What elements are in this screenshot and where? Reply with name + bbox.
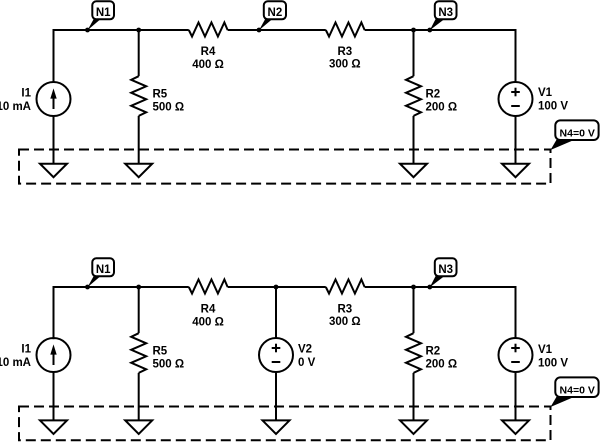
svg-text:100 V: 100 V	[538, 101, 568, 113]
svg-text:300 Ω: 300 Ω	[329, 59, 361, 71]
wire: R5 bottom lead	[138, 116, 140, 164]
wire: I1 bottom lead (bottom)	[53, 372, 55, 420]
wire: R2 top lead (bottom)	[413, 287, 415, 333]
svg-text:R2: R2	[426, 346, 441, 358]
svg-text:500 Ω: 500 Ω	[153, 102, 185, 114]
svg-text:N3: N3	[438, 264, 453, 276]
ground (R5 branch, top circuit)	[125, 164, 152, 178]
wire: R5 bottom lead (bottom)	[138, 373, 140, 421]
wire: R2 bottom lead (bottom)	[413, 373, 415, 421]
junction dot V2 branch (bottom)	[274, 285, 279, 290]
node N4=0V callout (bottom circuit)	[551, 397, 575, 407]
svg-text:0 V: 0 V	[298, 357, 316, 369]
ground (V1 branch, top circuit)	[502, 164, 529, 178]
svg-text:I1: I1	[21, 344, 31, 356]
svg-text:V1: V1	[538, 87, 553, 99]
svg-text:R4: R4	[201, 46, 216, 58]
junction dot N1/R5 branch	[136, 28, 141, 33]
wire: R5 top lead	[138, 30, 140, 76]
svg-text:N1: N1	[96, 264, 111, 276]
wire: bottom bus segment (I1 corner to R4 left lead)	[54, 287, 189, 339]
junction dot N1/R5 branch (bottom)	[136, 285, 141, 290]
ground (I1 branch, bottom circuit)	[40, 420, 67, 434]
node N2 callout (top circuit)	[257, 28, 262, 33]
svg-text:500 Ω: 500 Ω	[153, 359, 185, 371]
resistor R2	[406, 76, 421, 116]
svg-text:V1: V1	[538, 344, 553, 356]
svg-text:R5: R5	[153, 89, 168, 101]
svg-text:N1: N1	[96, 7, 111, 19]
wire: bus segment R3 to V1 corner	[365, 30, 516, 82]
svg-text:I1: I1	[21, 88, 31, 100]
wire: I1 bottom lead	[53, 116, 55, 164]
svg-text:10 mA: 10 mA	[0, 101, 31, 113]
current source I1 (top circuit)	[37, 82, 71, 116]
wire: bus segment R4 to R3 (node N2)	[228, 29, 326, 31]
resistor R4 (bottom)	[189, 280, 228, 294]
wire: V1 bottom lead	[515, 116, 517, 164]
resistor R3 (bottom)	[326, 280, 365, 294]
svg-text:N4=0 V: N4=0 V	[560, 384, 595, 396]
junction dot R2 branch	[411, 28, 416, 33]
svg-text:400 Ω: 400 Ω	[192, 317, 224, 329]
wire: bus segment R4 to R3 with V2 node (bottom)	[228, 286, 326, 288]
wire: R2 top lead	[413, 30, 415, 76]
svg-text:R3: R3	[337, 46, 352, 58]
wire: bus segment R3 to V1 corner (bottom)	[365, 287, 516, 339]
svg-text:R4: R4	[201, 304, 216, 316]
current source I1 (bottom circuit)	[37, 338, 71, 372]
resistor R2 (bottom)	[406, 333, 421, 373]
wire: V2 top lead	[275, 287, 277, 338]
node N4=0V callout (top circuit)	[551, 140, 575, 150]
svg-text:R5: R5	[153, 346, 168, 358]
voltage source V2 (bottom circuit)	[259, 338, 293, 372]
svg-text:R3: R3	[337, 304, 352, 316]
resistor R5 (bottom)	[131, 333, 146, 373]
resistor R5	[131, 76, 146, 116]
node N3 callout (top circuit)	[427, 28, 432, 33]
ground-region dashed box N4 (top circuit)	[19, 150, 551, 184]
ground (V1 branch, bottom circuit)	[502, 420, 529, 434]
junction dot R2 branch (bottom)	[411, 285, 416, 290]
resistor R4	[189, 23, 228, 37]
svg-text:N4=0 V: N4=0 V	[560, 127, 595, 139]
resistor R3	[326, 23, 365, 37]
wire: R2 bottom lead	[413, 116, 415, 164]
node N1 callout (bottom circuit)	[85, 285, 90, 290]
svg-text:N2: N2	[268, 7, 283, 19]
svg-text:100 V: 100 V	[538, 358, 568, 370]
node N1 callout (top circuit)	[85, 28, 90, 33]
voltage source V1 (bottom circuit)	[499, 338, 533, 372]
svg-text:10 mA: 10 mA	[0, 357, 31, 369]
ground (I1 branch, top circuit)	[40, 164, 67, 178]
ground-region dashed box N4 (bottom circuit)	[19, 407, 551, 441]
node N3 callout (bottom circuit)	[427, 285, 432, 290]
ground (R5 branch, bottom circuit)	[125, 420, 152, 434]
svg-text:N3: N3	[438, 7, 453, 19]
ground (R2 branch, top circuit)	[400, 164, 427, 178]
wire: V2 bottom lead	[275, 372, 277, 420]
ground (V2 branch, bottom circuit)	[263, 420, 290, 434]
ground (R2 branch, bottom circuit)	[400, 420, 427, 434]
svg-text:300 Ω: 300 Ω	[329, 316, 361, 328]
svg-text:V2: V2	[298, 344, 312, 356]
wire: V1 bottom lead (bottom)	[515, 372, 517, 420]
voltage source V1 (top circuit)	[499, 82, 533, 116]
svg-text:200 Ω: 200 Ω	[426, 359, 458, 371]
svg-text:200 Ω: 200 Ω	[426, 102, 458, 114]
wire: R5 top lead (bottom)	[138, 287, 140, 333]
svg-text:R2: R2	[426, 89, 441, 101]
wire: top bus segment N1 area (I1 corner to R4 left lead)	[54, 30, 189, 82]
svg-text:400 Ω: 400 Ω	[192, 59, 224, 71]
